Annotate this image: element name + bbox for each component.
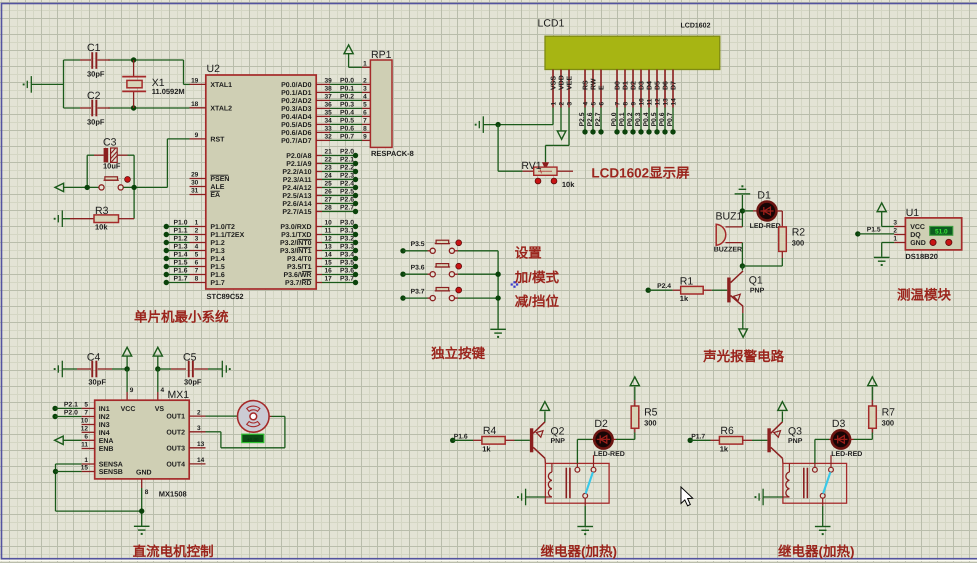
svg-text:BUZ1: BUZ1 xyxy=(716,211,743,223)
svg-text:1k: 1k xyxy=(720,445,729,454)
LCD pin 6 E xyxy=(600,70,602,108)
push button P3.7 xyxy=(430,296,454,301)
resistor R1 1k xyxy=(646,288,651,293)
ground (switch) xyxy=(815,527,831,531)
node P3.7 key xyxy=(400,295,405,300)
svg-text:P1.7: P1.7 xyxy=(691,433,705,440)
node P2.0 xyxy=(52,414,57,419)
svg-text:1k: 1k xyxy=(482,445,491,454)
node Q1 collector xyxy=(740,263,745,268)
svg-text:VS: VS xyxy=(155,406,165,413)
svg-text:OUT2: OUT2 xyxy=(166,429,185,436)
svg-text:8: 8 xyxy=(195,276,199,283)
svg-text:P2.1: P2.1 xyxy=(340,157,354,164)
svg-text:DQ: DQ xyxy=(910,232,921,239)
svg-text:P1.3: P1.3 xyxy=(210,248,225,255)
svg-text:P1.5: P1.5 xyxy=(210,264,225,271)
svg-text:P3.4: P3.4 xyxy=(340,252,354,259)
svg-text:P0.1/AD1: P0.1/AD1 xyxy=(281,89,311,97)
svg-text:PNP: PNP xyxy=(750,287,765,294)
mouse cursor xyxy=(681,487,693,506)
wire xyxy=(741,195,743,227)
svg-text:D1: D1 xyxy=(757,190,771,202)
svg-text:D2: D2 xyxy=(594,418,608,430)
svg-text:P0.4: P0.4 xyxy=(340,110,354,117)
node P0.7 (LCD) xyxy=(672,108,674,132)
svg-text:4: 4 xyxy=(195,244,199,251)
op-amp U2 (MCU STC89C52) xyxy=(206,75,316,289)
pin 25 P2.4 xyxy=(316,187,322,189)
pin 31 EA xyxy=(190,194,206,196)
pin 4 P1.3 xyxy=(190,250,206,252)
svg-text:27: 27 xyxy=(325,197,333,204)
resistor R2 300 xyxy=(776,210,782,212)
pin 14 OUT4 (MX1) xyxy=(189,463,205,465)
resistor pack RP1 xyxy=(362,66,370,68)
wire OUT2 loop xyxy=(206,431,221,433)
svg-text:IN3: IN3 xyxy=(99,422,110,429)
node P0.3 (LCD) xyxy=(640,108,642,132)
svg-text:OUT3: OUT3 xyxy=(166,445,185,452)
overline INT1 xyxy=(298,246,312,248)
overline INT0 xyxy=(298,238,312,240)
svg-text:D5: D5 xyxy=(655,81,662,90)
pin 15 SENSB (MX1) xyxy=(82,471,95,473)
svg-text:36: 36 xyxy=(325,102,333,109)
svg-text:15: 15 xyxy=(81,465,89,472)
svg-text:P2.4: P2.4 xyxy=(340,181,354,188)
svg-text:P2.6: P2.6 xyxy=(340,197,354,204)
resistor R5 300 xyxy=(631,406,639,428)
svg-text:OUT4: OUT4 xyxy=(166,462,185,469)
node VCC xyxy=(124,366,129,371)
power (Q3) xyxy=(781,411,783,421)
svg-text:4: 4 xyxy=(582,102,589,106)
svg-text:P1.1: P1.1 xyxy=(174,228,188,235)
cursor origin marker xyxy=(511,281,519,288)
terminal (reset) xyxy=(55,183,64,191)
svg-text:+0.00: +0.00 xyxy=(247,437,259,442)
svg-text:LED-RED: LED-RED xyxy=(750,223,781,230)
svg-text:P2.3: P2.3 xyxy=(340,173,354,180)
wire xyxy=(31,83,63,85)
LCD pin 10 D3 xyxy=(640,70,642,108)
svg-text:D0: D0 xyxy=(615,81,622,90)
wire xyxy=(348,54,350,68)
LCD pin 8 D1 xyxy=(624,70,626,108)
motor MX xyxy=(238,401,270,433)
svg-text:ALE: ALE xyxy=(210,184,224,191)
node VS xyxy=(155,366,160,371)
svg-text:10k: 10k xyxy=(95,223,108,232)
svg-text:R3: R3 xyxy=(95,205,109,217)
svg-text:IN4: IN4 xyxy=(99,430,110,437)
node P2.7 (LCD) xyxy=(600,108,602,132)
svg-text:P2.7/A15: P2.7/A15 xyxy=(282,208,311,216)
svg-text:IN2: IN2 xyxy=(99,414,110,421)
svg-text:PNP: PNP xyxy=(551,438,566,445)
LCD pin 2 VDD xyxy=(560,70,562,108)
LCD pin 12 D5 xyxy=(656,70,658,108)
svg-text:P3.3: P3.3 xyxy=(340,244,354,251)
terminal ENA xyxy=(55,436,64,444)
svg-text:P0.1: P0.1 xyxy=(619,112,626,126)
svg-text:51.0: 51.0 xyxy=(935,229,948,236)
svg-text:P2.6/A14: P2.6/A14 xyxy=(282,200,311,208)
node P0.4 (LCD) xyxy=(648,108,650,132)
svg-text:P2.1/A9: P2.1/A9 xyxy=(286,160,311,168)
node P2.1 xyxy=(52,406,57,411)
svg-text:14: 14 xyxy=(197,457,205,464)
motor driver MX1 MX1508 xyxy=(95,400,190,479)
svg-text:30pF: 30pF xyxy=(184,378,202,387)
svg-text:12: 12 xyxy=(654,98,661,106)
resistor R7 300 xyxy=(869,406,877,428)
svg-text:12: 12 xyxy=(325,236,333,243)
svg-text:300: 300 xyxy=(882,419,895,428)
svg-text:P0.1: P0.1 xyxy=(340,86,354,93)
wire VCC down xyxy=(126,369,128,392)
svg-text:31: 31 xyxy=(191,188,199,195)
pin 36 P0.3 wire to RP1 xyxy=(316,107,330,109)
svg-text:5: 5 xyxy=(84,402,88,409)
svg-text:P3.7/RD: P3.7/RD xyxy=(285,279,311,287)
power (R5) xyxy=(630,377,639,386)
node P2.6 (LCD) xyxy=(592,108,594,132)
wire SENSA/SENSB xyxy=(56,463,82,465)
svg-text:P2.2: P2.2 xyxy=(340,165,354,172)
svg-text:C3: C3 xyxy=(103,136,117,148)
svg-text:33: 33 xyxy=(325,126,333,133)
svg-text:18: 18 xyxy=(191,101,199,108)
svg-text:15: 15 xyxy=(325,260,333,267)
ground (buzzer top, pointing up) xyxy=(741,185,743,187)
svg-text:5: 5 xyxy=(195,252,199,259)
pin 3 P1.2 xyxy=(190,242,206,244)
svg-text:19: 19 xyxy=(191,78,199,85)
svg-text:P3.6: P3.6 xyxy=(411,265,425,272)
wire switch common to ground xyxy=(822,506,824,526)
svg-text:P0.5/AD5: P0.5/AD5 xyxy=(281,121,311,129)
svg-text:LED-RED: LED-RED xyxy=(831,451,862,458)
svg-text:P0.0: P0.0 xyxy=(611,112,618,126)
overline PSEN xyxy=(210,174,228,176)
svg-text:LCD1602显示屏: LCD1602显示屏 xyxy=(591,166,690,181)
svg-text:P1.3: P1.3 xyxy=(174,244,188,251)
pin 17 P3.7 xyxy=(316,282,322,284)
svg-text:7: 7 xyxy=(614,102,621,106)
LCD pin 3 VEE xyxy=(568,70,570,108)
svg-text:P1.6: P1.6 xyxy=(454,433,468,440)
LCD pin 11 D4 xyxy=(648,70,650,108)
LCD pin 14 D7 xyxy=(672,70,674,108)
svg-text:EA: EA xyxy=(210,192,220,199)
LCD pin 13 D6 xyxy=(664,70,666,108)
svg-text:11: 11 xyxy=(325,228,332,235)
node P2.5 (LCD) xyxy=(584,108,586,132)
svg-text:DS18B20: DS18B20 xyxy=(905,252,938,261)
svg-text:P0.7: P0.7 xyxy=(667,112,674,126)
svg-text:P3.6: P3.6 xyxy=(340,268,354,275)
svg-text:29: 29 xyxy=(191,172,199,179)
svg-text:P1.1/T2EX: P1.1/T2EX xyxy=(210,231,244,239)
relay switch xyxy=(814,463,816,467)
svg-text:13: 13 xyxy=(662,98,669,106)
node P3.6 key xyxy=(400,272,405,277)
ground (R3) xyxy=(58,210,62,227)
svg-text:25: 25 xyxy=(325,181,333,188)
U1 display 51.0 xyxy=(930,226,953,235)
svg-text:P0.2: P0.2 xyxy=(340,94,354,101)
pin 22 P2.1 xyxy=(316,163,322,165)
pin 37 P0.2 wire to RP1 xyxy=(316,99,330,101)
transistor Q1 PNP xyxy=(741,266,743,270)
capacitor C5 xyxy=(158,368,171,370)
svg-text:D3: D3 xyxy=(639,81,646,90)
svg-text:24: 24 xyxy=(325,173,333,180)
pin 8 GND (MX1) xyxy=(141,479,143,488)
wire LED to R7 xyxy=(850,438,854,440)
svg-text:BUZZER: BUZZER xyxy=(714,247,742,254)
pin 5 IN1 (MX1) xyxy=(82,407,95,409)
LCD pin 5 RW xyxy=(592,70,594,108)
svg-text:4: 4 xyxy=(363,94,367,101)
svg-text:C1: C1 xyxy=(87,42,101,54)
svg-text:P0.6: P0.6 xyxy=(659,112,666,126)
svg-text:P3.3/INT1: P3.3/INT1 xyxy=(280,247,312,255)
svg-text:P3.1: P3.1 xyxy=(340,228,354,235)
svg-text:XTAL2: XTAL2 xyxy=(210,105,232,112)
ground (switch) xyxy=(577,527,593,531)
svg-text:测温模块: 测温模块 xyxy=(897,288,951,303)
temperature module U1 DS18B20 xyxy=(905,218,961,250)
svg-text:P2.3/A11: P2.3/A11 xyxy=(283,176,312,184)
pin 39 P0.0 wire to RP1 xyxy=(316,83,330,85)
svg-text:继电器(加热): 继电器(加热) xyxy=(778,544,855,559)
svg-text:10: 10 xyxy=(325,220,333,227)
svg-text:9: 9 xyxy=(363,134,367,141)
LED D2 xyxy=(576,439,578,463)
svg-text:6: 6 xyxy=(195,260,199,267)
svg-text:P3.2/INT0: P3.2/INT0 xyxy=(280,239,312,247)
svg-text:P0.3/AD3: P0.3/AD3 xyxy=(281,105,311,113)
svg-text:R1: R1 xyxy=(680,276,694,288)
power (U1) xyxy=(877,203,886,212)
ground (coil) xyxy=(522,489,526,506)
pin 30 ALE xyxy=(190,186,206,188)
node P0.2 (LCD) xyxy=(632,108,634,132)
svg-text:P3.5: P3.5 xyxy=(340,260,354,267)
svg-text:R4: R4 xyxy=(483,425,497,437)
svg-text:P2.1: P2.1 xyxy=(64,402,78,409)
svg-text:5: 5 xyxy=(590,102,597,106)
pin 2 OUT1 (MX1) xyxy=(189,415,205,417)
overline WR xyxy=(302,270,312,272)
svg-text:8: 8 xyxy=(363,126,367,133)
wire GND (U1) xyxy=(882,242,895,244)
pin 19 XTAL1 xyxy=(190,83,206,85)
svg-text:声光报警电路: 声光报警电路 xyxy=(702,349,784,364)
svg-text:Q1: Q1 xyxy=(749,275,763,287)
svg-text:D2: D2 xyxy=(631,81,638,90)
wire xyxy=(881,212,883,227)
svg-text:U2: U2 xyxy=(207,63,221,75)
svg-text:P2.6: P2.6 xyxy=(587,112,594,126)
svg-text:RST: RST xyxy=(210,137,225,144)
pin 6 ENA (MX1) xyxy=(82,439,95,441)
pin 2 P1.1 xyxy=(190,234,206,236)
svg-text:R2: R2 xyxy=(792,227,806,239)
pin 24 P2.3 xyxy=(316,179,322,181)
svg-text:RS: RS xyxy=(583,80,590,90)
svg-text:P3.2: P3.2 xyxy=(340,236,354,243)
U1 red dots xyxy=(930,239,936,245)
ground (coil) xyxy=(759,489,763,506)
svg-text:14: 14 xyxy=(325,252,333,259)
svg-text:RESPACK-8: RESPACK-8 xyxy=(371,149,414,158)
pin 7 P1.6 xyxy=(190,274,206,276)
svg-text:MX1: MX1 xyxy=(168,389,190,401)
capacitor C4 xyxy=(62,368,77,370)
wire VSS xyxy=(552,108,554,125)
svg-text:3: 3 xyxy=(893,220,897,227)
wire key bus xyxy=(497,251,499,329)
pin 23 P2.2 xyxy=(316,171,322,173)
wire emitter down xyxy=(742,306,744,313)
wire to XTAL1 xyxy=(183,60,185,84)
svg-text:独立按键: 独立按键 xyxy=(430,346,485,361)
svg-text:8: 8 xyxy=(622,102,629,106)
svg-text:5: 5 xyxy=(363,102,367,109)
svg-text:PNP: PNP xyxy=(788,438,803,445)
wire xyxy=(123,186,167,188)
svg-text:32: 32 xyxy=(325,134,333,141)
svg-text:P3.5/T1: P3.5/T1 xyxy=(287,263,312,271)
svg-text:P1.0/T2: P1.0/T2 xyxy=(210,223,235,231)
svg-text:P0.5: P0.5 xyxy=(340,118,354,125)
pin 3 VCC (U1) xyxy=(894,226,905,228)
pin 32 P0.7 wire to RP1 xyxy=(316,139,330,141)
svg-text:P2.5: P2.5 xyxy=(340,189,354,196)
wire LED to R5 xyxy=(612,438,616,440)
svg-text:P1.7: P1.7 xyxy=(210,280,225,287)
svg-text:11: 11 xyxy=(81,442,88,449)
svg-text:D6: D6 xyxy=(663,81,670,90)
svg-text:1: 1 xyxy=(893,236,897,243)
svg-text:P1.4: P1.4 xyxy=(210,256,225,263)
wire collector xyxy=(544,458,546,463)
svg-text:U1: U1 xyxy=(906,207,920,219)
svg-text:GND: GND xyxy=(910,240,926,247)
svg-text:6: 6 xyxy=(598,102,605,106)
svg-text:P0.0: P0.0 xyxy=(340,78,354,85)
pin 27 P2.6 xyxy=(316,203,322,205)
svg-text:设置: 设置 xyxy=(515,246,542,261)
pin 29 PSEN xyxy=(190,178,206,180)
svg-text:3: 3 xyxy=(566,102,573,106)
power (VCC MX1) xyxy=(123,347,132,356)
svg-text:30pF: 30pF xyxy=(87,118,105,127)
pin 6 P1.5 xyxy=(190,266,206,268)
transistor Q2 PNP xyxy=(530,428,533,452)
relay coil xyxy=(788,463,790,472)
svg-text:P1.0: P1.0 xyxy=(174,220,188,227)
wire OUT1 to motor xyxy=(206,415,238,417)
relay coil xyxy=(551,463,553,472)
svg-text:P0.0/AD0: P0.0/AD0 xyxy=(281,81,311,89)
pin 34 P0.5 wire to RP1 xyxy=(316,123,330,125)
svg-text:VEE: VEE xyxy=(567,76,574,90)
svg-text:39: 39 xyxy=(325,78,333,85)
pin 38 P0.1 wire to RP1 xyxy=(316,91,330,93)
svg-text:1k: 1k xyxy=(680,294,689,303)
pin 33 P0.6 wire to RP1 xyxy=(316,131,330,133)
push button P3.5 xyxy=(430,248,454,253)
svg-text:P2.5: P2.5 xyxy=(579,112,586,126)
svg-text:VCC: VCC xyxy=(121,406,136,413)
pin 3 OUT2 (MX1) xyxy=(189,431,205,433)
svg-text:P0.6: P0.6 xyxy=(340,126,354,133)
svg-text:P2.5/A13: P2.5/A13 xyxy=(282,192,311,200)
node P0.1 (LCD) xyxy=(624,108,626,132)
pin 1 GND (U1) xyxy=(894,242,905,244)
node P3.5 key xyxy=(400,248,405,253)
svg-text:VDD: VDD xyxy=(559,75,566,90)
svg-text:P3.1/TXD: P3.1/TXD xyxy=(281,231,311,239)
pin 11 ENB (MX1) xyxy=(82,448,95,450)
svg-text:Q3: Q3 xyxy=(788,425,802,437)
capacitor C2 xyxy=(80,107,91,109)
push button (reset) xyxy=(99,185,123,190)
pin 21 P2.0 xyxy=(316,155,322,157)
crystal X1 xyxy=(133,60,135,76)
svg-text:11.0592M: 11.0592M xyxy=(152,87,185,96)
node P1.5 xyxy=(855,231,860,236)
svg-text:P0.2: P0.2 xyxy=(627,112,634,126)
svg-text:13: 13 xyxy=(325,244,333,251)
svg-text:D4: D4 xyxy=(647,81,654,90)
power (VS MX1) xyxy=(153,347,162,356)
transistor Q3 PNP xyxy=(767,428,770,452)
svg-text:PSEN: PSEN xyxy=(210,176,229,183)
svg-text:2: 2 xyxy=(195,228,199,235)
svg-text:P2.7: P2.7 xyxy=(595,112,602,126)
svg-text:P0.4: P0.4 xyxy=(643,112,650,126)
LCD pin 9 D2 xyxy=(632,70,634,108)
svg-text:17: 17 xyxy=(325,276,333,283)
wire to RST xyxy=(166,139,168,188)
svg-text:35: 35 xyxy=(325,110,333,117)
svg-text:P1.4: P1.4 xyxy=(174,252,188,259)
wire xyxy=(94,154,104,156)
svg-text:28: 28 xyxy=(325,205,333,212)
LED D1 xyxy=(742,210,753,212)
wire xyxy=(86,155,88,187)
svg-text:10: 10 xyxy=(638,98,645,106)
node P0.6 (LCD) xyxy=(664,108,666,132)
svg-text:加/模式: 加/模式 xyxy=(514,270,560,285)
LCD pin 1 VSS xyxy=(552,70,554,108)
potentiometer RV1 10k xyxy=(523,170,534,172)
pin 18 XTAL2 xyxy=(190,107,206,109)
capacitor C3 xyxy=(104,148,109,162)
pin 14 P3.4 xyxy=(316,258,322,260)
svg-text:4: 4 xyxy=(161,387,165,394)
svg-text:P3.7: P3.7 xyxy=(340,276,354,283)
svg-text:ENB: ENB xyxy=(99,446,114,453)
svg-text:R5: R5 xyxy=(644,407,658,419)
svg-text:P0.3: P0.3 xyxy=(340,102,354,109)
